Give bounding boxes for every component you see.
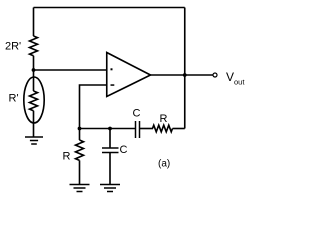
ground (shunt R) (70, 185, 90, 192)
svg-text:C: C (133, 108, 141, 120)
svg-text:2R': 2R' (5, 41, 21, 53)
wire: op-amp output to terminal (151, 74, 214, 76)
wire: series C to series R (140, 128, 154, 130)
capacitor C (shunt, bottom plate) (102, 152, 119, 154)
svg-text:R': R' (9, 93, 19, 105)
capacitor C (series, left plate) (135, 121, 137, 138)
op-amp plus mark (111, 68, 113, 70)
svg-text:R: R (63, 151, 71, 163)
output terminal (open circle) (213, 73, 217, 77)
wire: junction down to shunt resistor R (79, 129, 81, 141)
output node junction dot (183, 73, 187, 77)
wire: left vertical from top rail to resistor 2R' (33, 8, 35, 37)
svg-text:Vout: Vout (226, 70, 245, 87)
wire: bottom rail (80, 128, 136, 130)
capacitor C (series, right plate) (139, 121, 141, 138)
op-amp U1 (107, 53, 151, 97)
svg-text:R: R (160, 113, 168, 125)
ground (lamp) (25, 137, 43, 144)
wire: from 2R' bottom through node A into lamp (33, 56, 35, 91)
resistor R (series, feedback) (153, 125, 173, 132)
op-amp minus mark (111, 84, 115, 86)
wire: noninverting input wire from node A to op-amp (34, 69, 107, 71)
wire: junction down to shunt capacitor C (109, 129, 111, 149)
wire: inverting input wire down to bottom rail (80, 85, 107, 129)
lamp R' filament resistor (30, 91, 38, 111)
resistor 2R' (30, 36, 38, 56)
node A junction dot (32, 68, 36, 72)
wire: lamp bottom to ground (33, 111, 35, 137)
svg-text:(a): (a) (158, 159, 170, 170)
junction dot at inverting-input corner (78, 127, 82, 131)
ground (shunt C) (100, 185, 120, 192)
resistor R (shunt) (76, 140, 84, 160)
wire: shunt C to ground (109, 153, 111, 185)
junction dot at shunt C tap (108, 127, 112, 131)
wire: right vertical (top rail down through output node to feedback corner) (184, 8, 186, 129)
capacitor C (shunt, top plate) (102, 147, 119, 149)
lamp R' envelope (24, 77, 44, 123)
wire: shunt R to ground (79, 160, 81, 184)
wire: series R to right vertical (173, 128, 185, 130)
svg-text:C: C (120, 144, 128, 156)
wire: top feedback rail (34, 7, 185, 9)
